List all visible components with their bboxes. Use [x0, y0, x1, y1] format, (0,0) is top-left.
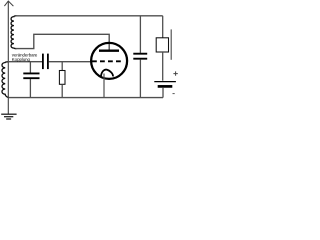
wire: top rail down to headphone H1: [162, 16, 164, 38]
tuning capacitor C1 plates: [23, 72, 39, 74]
wire: tank coil top to grid capacitor: [8, 61, 42, 63]
triode tube V1 envelope: [91, 43, 127, 79]
svg-text:Kopplung: Kopplung: [12, 57, 31, 62]
tank coil L1 (lower, bumps left, cusp x5.2): [2, 62, 8, 98]
coupling arrow shaft (antenna-style line through both coils): [7, 1, 9, 114]
wire: feedback coil bottom to anode: [16, 34, 110, 49]
battery B1 minus plate: [158, 85, 173, 88]
battery + label: [173, 71, 177, 75]
wire: battery - to bottom rail: [162, 88, 164, 98]
battery B1 plus plate: [154, 81, 176, 83]
wire: C1 to bottom rail: [29, 79, 31, 98]
anode bar: [99, 50, 119, 52]
bottom rail: [8, 97, 163, 99]
wire: grid node down to grid-leak resistor R1: [61, 62, 63, 71]
wire: R1 to bottom rail: [61, 84, 63, 97]
grid (dashed): [92, 60, 122, 62]
wire: headphone to battery +: [162, 52, 164, 81]
headphone H1 diaphragm line: [170, 29, 172, 59]
bypass capacitor C3 plates: [133, 53, 147, 55]
battery - label: [173, 93, 175, 95]
feedback coil L2 (upper, bumps left, cusp x13.9): [11, 16, 16, 49]
filament: [101, 70, 113, 77]
wire: top rail down to bypass capacitor C3: [139, 16, 141, 53]
ground: [1, 114, 16, 119]
arrowhead: [4, 1, 13, 6]
wire: C3 to bottom rail: [139, 60, 141, 98]
headphone H1 coil box: [156, 38, 168, 52]
wire: filament cathode lead to bottom rail: [103, 74, 105, 98]
top rail: [16, 15, 163, 17]
wire: grid node down to tuning capacitor C1: [29, 62, 31, 73]
grid capacitor C2: [42, 54, 44, 70]
wire: grid capacitor to tube grid: [49, 61, 92, 63]
grid leak resistor R1 body: [59, 71, 65, 85]
